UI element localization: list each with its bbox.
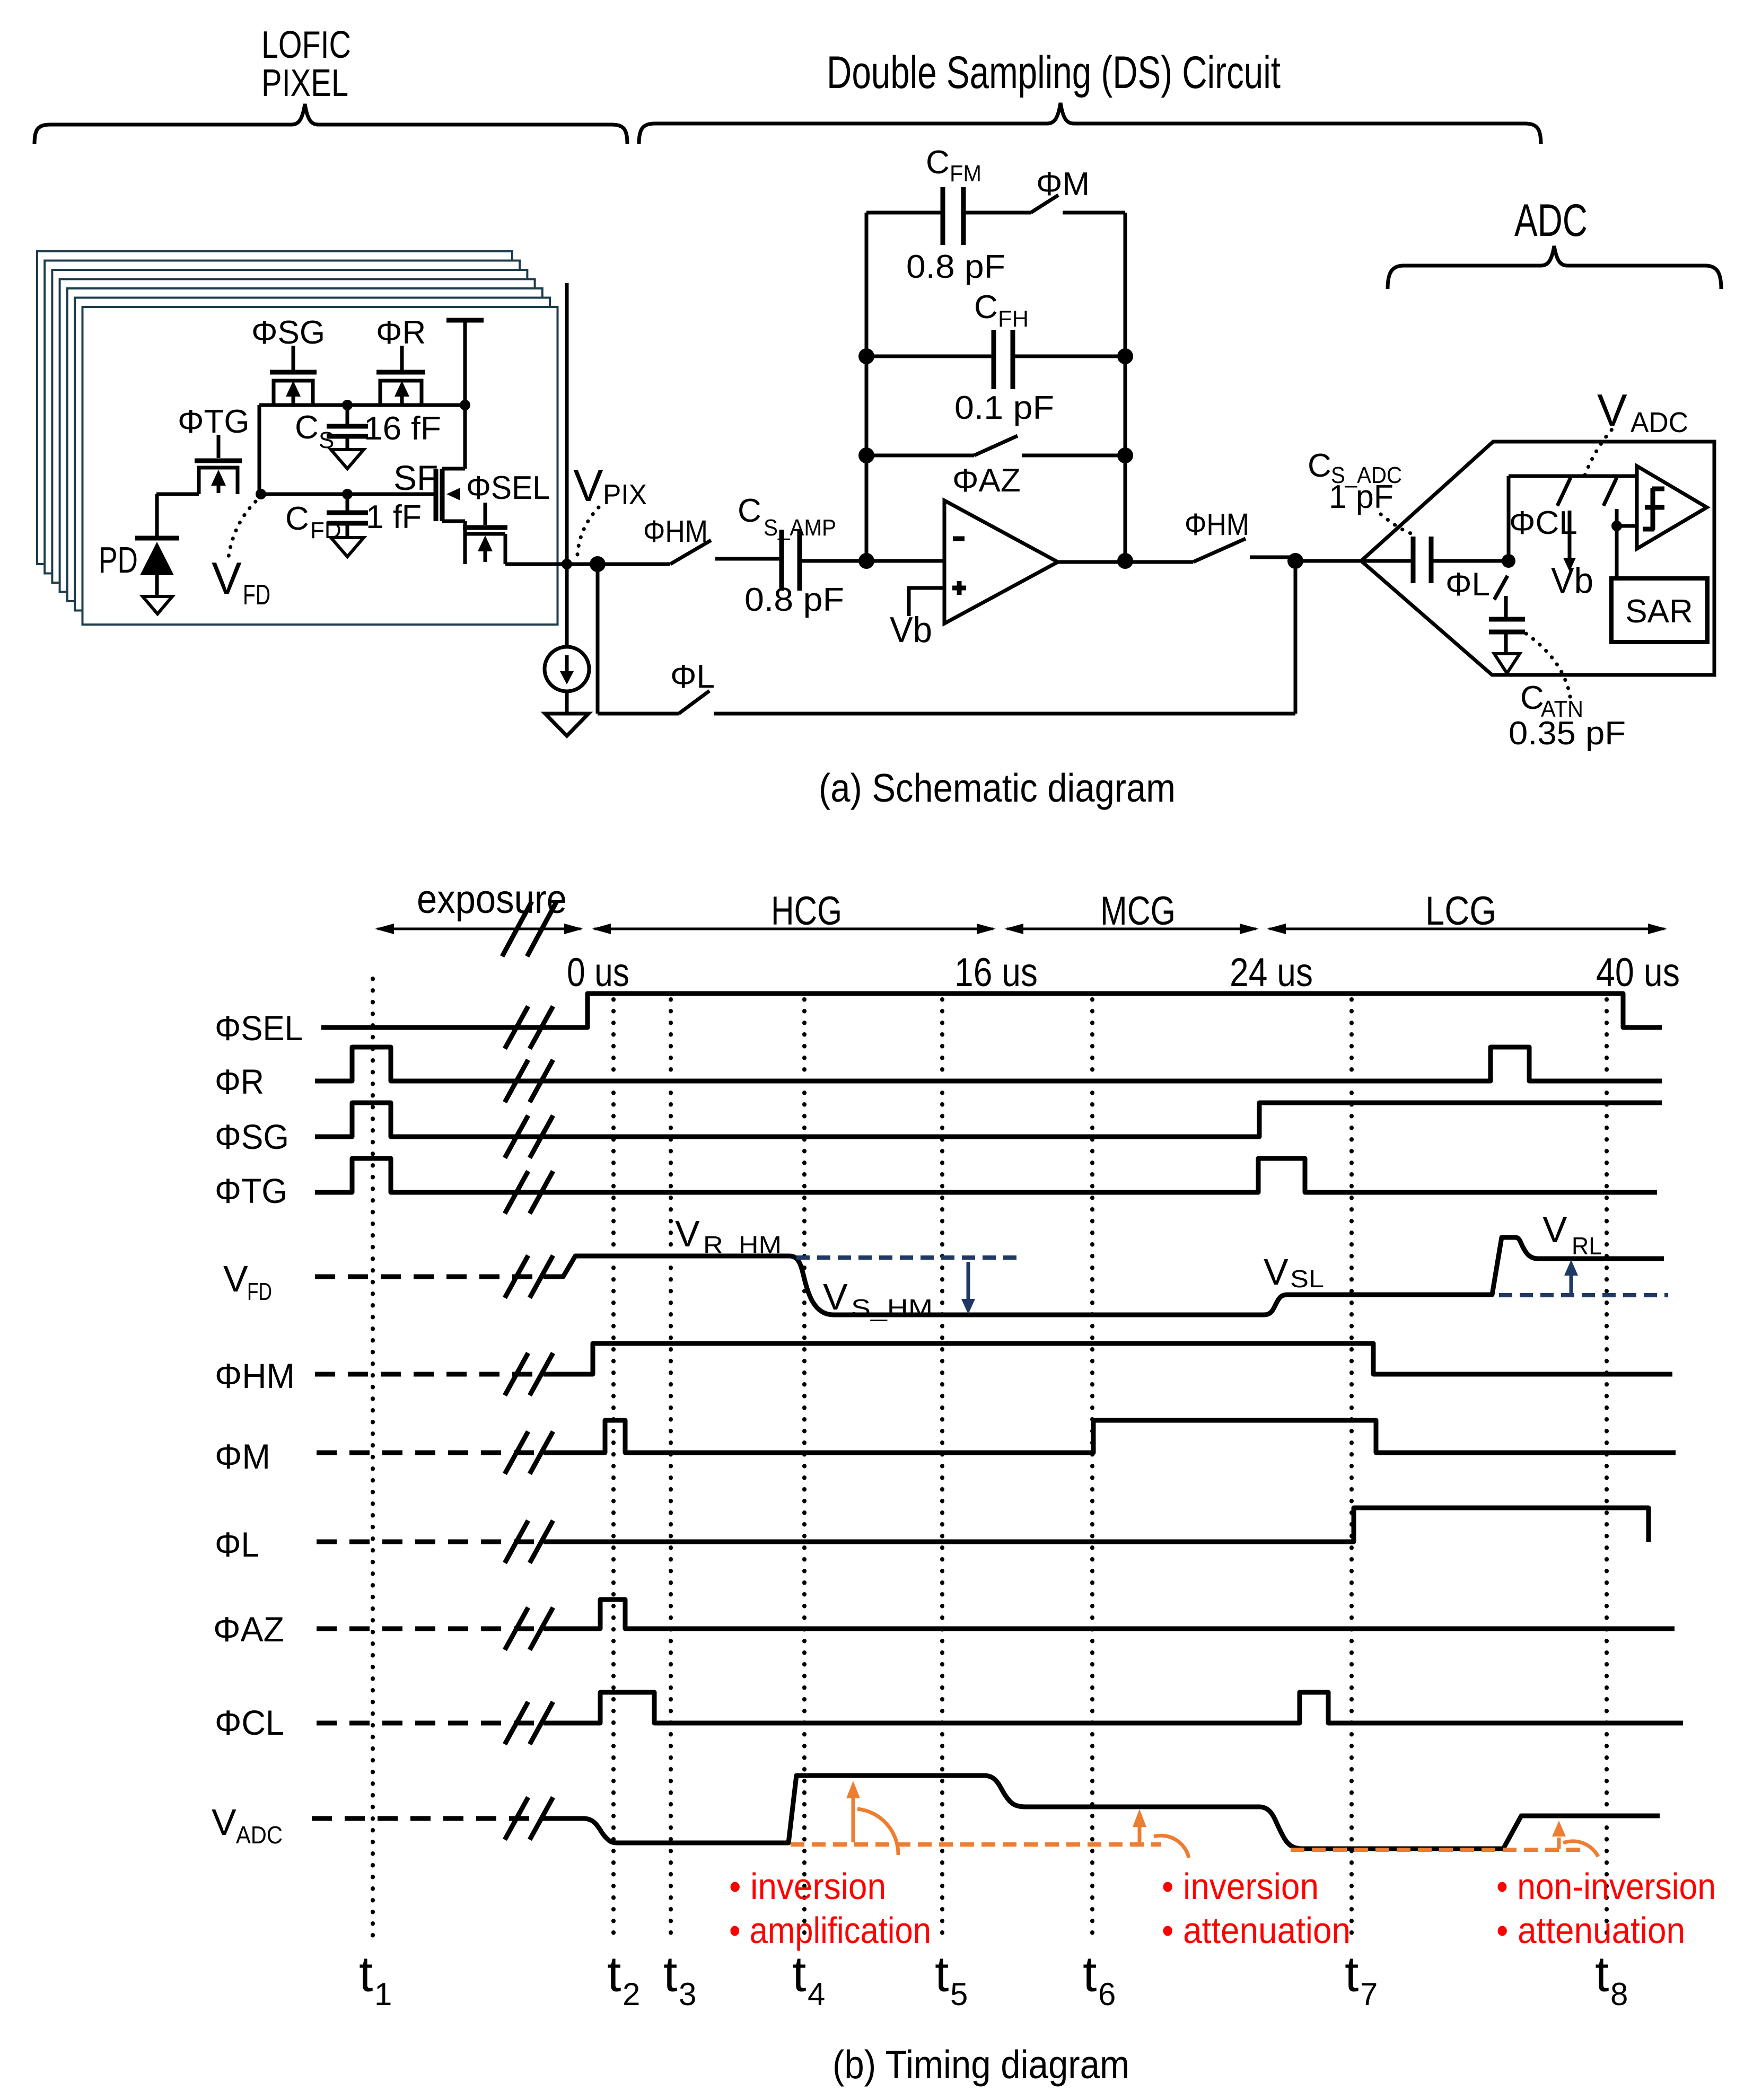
svg-text:SAR: SAR bbox=[1625, 593, 1693, 630]
reference VR_HM dashed blue bbox=[796, 1255, 1019, 1260]
label VFD with pointer bbox=[212, 502, 270, 611]
pixel array stacked box 1 bbox=[37, 251, 512, 564]
brace ADC bbox=[1388, 246, 1721, 289]
ADC attenuator wedge outline bbox=[1361, 442, 1714, 675]
ground current source bbox=[545, 714, 589, 736]
svg-text:ΦL: ΦL bbox=[215, 1525, 259, 1564]
arrow VRL rise blue bbox=[1564, 1260, 1578, 1294]
arc orange rotate HCG bbox=[857, 1809, 898, 1855]
waveform VADC dashed lead bbox=[312, 1816, 551, 1821]
gridline t6 bbox=[1090, 999, 1094, 1938]
label VPIX with pointer bbox=[573, 461, 647, 555]
transistor ΦSG bbox=[251, 314, 325, 405]
wire VPIX column line bbox=[565, 283, 569, 647]
break ΦM bbox=[505, 1431, 553, 1474]
node CFH left bbox=[858, 348, 874, 364]
svg-text:ΦSEL: ΦSEL bbox=[466, 470, 550, 506]
svg-text:16 fF: 16 fF bbox=[364, 410, 441, 447]
pixel array stacked box 5 bbox=[67, 288, 542, 601]
svg-text:t: t bbox=[1595, 1946, 1609, 2002]
svg-text:V: V bbox=[212, 1802, 236, 1843]
node comparator lower input bbox=[1611, 521, 1622, 531]
svg-text:ΦL: ΦL bbox=[670, 658, 715, 695]
gridline t2 bbox=[611, 999, 616, 1938]
label VFD row bbox=[223, 1258, 272, 1305]
svg-text:0 us: 0 us bbox=[567, 950, 629, 995]
break VADC bbox=[505, 1797, 553, 1840]
svg-text:V: V bbox=[573, 461, 603, 511]
wire ΦSG left lead to FD bbox=[258, 405, 261, 494]
label t5 bbox=[935, 1946, 968, 2012]
svg-text:ΦM: ΦM bbox=[1036, 166, 1090, 203]
label t2 bbox=[607, 1946, 640, 2012]
switch ΦL attenuation bbox=[1445, 566, 1507, 603]
svg-text:Vb: Vb bbox=[1551, 560, 1593, 601]
svg-text:LOFIC: LOFIC bbox=[261, 24, 351, 66]
svg-text:• non-inversion: • non-inversion bbox=[1496, 1866, 1716, 1907]
svg-text:1: 1 bbox=[374, 1976, 392, 2012]
waveform ΦCL dashed lead bbox=[317, 1721, 544, 1726]
note inversion attenuation bbox=[1162, 1866, 1351, 1951]
svg-text:3: 3 bbox=[679, 1976, 696, 2012]
switch comparator reset bbox=[1603, 478, 1617, 526]
svg-text:ΦAZ: ΦAZ bbox=[213, 1610, 284, 1649]
break ΦSG bbox=[505, 1115, 553, 1158]
switch ΦAZ bbox=[866, 436, 1125, 499]
arrow LCG span bbox=[1267, 924, 1667, 934]
arrow orange amplification bbox=[846, 1781, 860, 1842]
svg-text:ΦHM: ΦHM bbox=[1185, 507, 1249, 542]
svg-text:• amplification: • amplification bbox=[729, 1910, 931, 1951]
wire amp output bbox=[1058, 560, 1193, 564]
svg-text:4: 4 bbox=[808, 1976, 825, 2012]
label t8 bbox=[1595, 1946, 1628, 2012]
switch ΦHM input bbox=[643, 514, 782, 564]
svg-text:MCG: MCG bbox=[1100, 889, 1176, 934]
label VADC row bbox=[212, 1802, 283, 1849]
svg-text:C: C bbox=[1308, 447, 1331, 484]
svg-text:V: V bbox=[1264, 1251, 1289, 1293]
node CS junction bbox=[342, 400, 353, 410]
arrow exposure span bbox=[375, 901, 583, 956]
wire feedback right rail bbox=[1124, 213, 1127, 561]
svg-text:R_HM: R_HM bbox=[703, 1231, 782, 1259]
svg-text:(a) Schematic diagram: (a) Schematic diagram bbox=[819, 766, 1176, 810]
svg-text:40 us: 40 us bbox=[1596, 950, 1680, 995]
arc orange hook MCG bbox=[1154, 1835, 1189, 1858]
node amp output junction bbox=[1117, 553, 1133, 569]
label VR_HM bbox=[675, 1213, 782, 1259]
waveform ΦAZ dashed lead bbox=[317, 1627, 544, 1631]
svg-text:0.35 pF: 0.35 pF bbox=[1509, 715, 1626, 752]
break ΦHM bbox=[505, 1353, 553, 1395]
wire Vb arrow bbox=[1551, 511, 1593, 601]
switch ΦHM output bbox=[1185, 507, 1295, 562]
waveform ΦL dashed lead bbox=[317, 1540, 544, 1544]
wire Vb bias lead bbox=[890, 588, 944, 650]
svg-text:ΦTG: ΦTG bbox=[215, 1171, 287, 1210]
svg-text:5: 5 bbox=[950, 1976, 968, 2012]
reference orange dashed HCG bbox=[791, 1842, 1161, 1847]
arrow MCG span bbox=[1004, 924, 1259, 934]
gridline t4 bbox=[802, 999, 807, 1938]
svg-text:SL: SL bbox=[1290, 1265, 1324, 1293]
pixel array stacked box 6 bbox=[75, 298, 550, 611]
capacitor CFD bbox=[285, 494, 422, 543]
svg-text:V: V bbox=[223, 1258, 248, 1299]
svg-text:Double Sampling (DS) Circuit: Double Sampling (DS) Circuit bbox=[827, 47, 1281, 98]
svg-text:FD: FD bbox=[247, 1278, 272, 1305]
svg-text:ADC: ADC bbox=[1631, 407, 1688, 438]
svg-text:• attenuation: • attenuation bbox=[1162, 1910, 1351, 1951]
svg-text:ΦSG: ΦSG bbox=[251, 314, 325, 351]
svg-text:PD: PD bbox=[99, 539, 138, 581]
pixel array stacked box 4 bbox=[60, 279, 535, 592]
label t3 bbox=[663, 1946, 696, 2012]
node ΦAZ right bbox=[1117, 447, 1133, 463]
svg-text:C: C bbox=[738, 493, 761, 529]
svg-text:RL: RL bbox=[1572, 1232, 1602, 1260]
ground CFD bbox=[331, 538, 364, 557]
wire node up to comparator input bbox=[1509, 476, 1637, 561]
ground CATN bbox=[1494, 654, 1520, 673]
VDD supply bar bbox=[446, 320, 484, 469]
wire ΦL branch down bbox=[598, 564, 679, 714]
SAR logic block bbox=[1611, 578, 1707, 642]
waveform ΦCL bbox=[544, 1692, 1683, 1723]
label t6 bbox=[1083, 1946, 1116, 2012]
svg-text:V: V bbox=[1542, 1209, 1567, 1250]
svg-text:t: t bbox=[607, 1946, 621, 2002]
svg-text:ΦM: ΦM bbox=[215, 1437, 270, 1476]
arrow VS_HM drop blue bbox=[961, 1262, 975, 1314]
switch ΦL bbox=[670, 658, 715, 714]
brace DS circuit bbox=[639, 103, 1541, 144]
node ΦL branch junction bbox=[590, 556, 606, 572]
svg-text:0.8 pF: 0.8 pF bbox=[744, 582, 844, 618]
waveform ΦSG bbox=[315, 1103, 1662, 1137]
svg-text:ADC: ADC bbox=[1514, 195, 1588, 246]
pixel array stacked box 3 bbox=[52, 270, 527, 583]
svg-text:ΦCL: ΦCL bbox=[215, 1703, 284, 1742]
svg-text:C: C bbox=[295, 409, 319, 446]
switch ΦM bbox=[1031, 166, 1125, 213]
svg-text:C: C bbox=[285, 500, 309, 537]
node CS_ADC output bbox=[1502, 554, 1515, 568]
svg-text:0.8 pF: 0.8 pF bbox=[906, 249, 1005, 285]
svg-text:ΦSEL: ΦSEL bbox=[215, 1008, 303, 1048]
svg-text:exposure: exposure bbox=[417, 877, 567, 922]
wire ΦSEL source to column bbox=[505, 563, 670, 566]
node CFH right bbox=[1117, 348, 1133, 364]
svg-text:ΦR: ΦR bbox=[215, 1062, 264, 1101]
svg-text:SF: SF bbox=[393, 458, 438, 497]
waveform ΦAZ bbox=[544, 1600, 1675, 1629]
waveform ΦSEL bbox=[321, 994, 1662, 1027]
svg-text:ΦTG: ΦTG bbox=[178, 403, 250, 440]
transistor ΦTG bbox=[156, 403, 250, 494]
pixel array stacked box 2 bbox=[45, 261, 520, 574]
label VRL bbox=[1542, 1209, 1602, 1260]
waveform VFD bbox=[544, 1237, 1664, 1315]
svg-text:S_HM: S_HM bbox=[851, 1294, 933, 1322]
gridline t1 bbox=[371, 979, 375, 1938]
node FD dot bbox=[256, 489, 266, 499]
svg-text:ΦSG: ΦSG bbox=[215, 1117, 289, 1156]
waveform ΦHM bbox=[544, 1343, 1672, 1374]
wire to SAR bbox=[1615, 526, 1619, 578]
svg-text:t: t bbox=[935, 1946, 949, 2002]
wire ΦL bottom rail bbox=[714, 563, 1295, 714]
svg-text:0.1 pF: 0.1 pF bbox=[954, 390, 1054, 426]
waveform ΦR bbox=[315, 1047, 1662, 1081]
label VADC with pointer bbox=[1585, 385, 1688, 475]
wire CS top rail bbox=[259, 403, 465, 407]
capacitor CFM bbox=[866, 144, 1031, 285]
node column junction bbox=[562, 559, 572, 569]
arc orange hook LCG bbox=[1563, 1841, 1598, 1857]
svg-text:• attenuation: • attenuation bbox=[1496, 1910, 1685, 1951]
svg-text:(b) Timing diagram: (b) Timing diagram bbox=[832, 2042, 1129, 2087]
arrow HCG span bbox=[592, 924, 996, 934]
ground PD bbox=[143, 596, 172, 614]
svg-text:ΦR: ΦR bbox=[376, 314, 426, 351]
svg-text:ΦCL: ΦCL bbox=[1509, 505, 1577, 541]
note non-inversion attenuation bbox=[1496, 1866, 1716, 1951]
wire to comparator minus input bbox=[1617, 524, 1637, 528]
svg-text:ΦHM: ΦHM bbox=[643, 514, 708, 549]
switch ΦCL bbox=[1509, 478, 1577, 541]
svg-text:16 us: 16 us bbox=[954, 950, 1038, 995]
svg-text:S_AMP: S_AMP bbox=[764, 515, 836, 541]
capacitor CATN bbox=[1489, 596, 1626, 752]
waveform VFD dashed lead bbox=[315, 1275, 544, 1279]
wire feedback left rail bbox=[865, 213, 869, 561]
svg-text:• inversion: • inversion bbox=[729, 1866, 886, 1907]
svg-text:HCG: HCG bbox=[771, 889, 842, 934]
node ADC input junction bbox=[1287, 553, 1303, 569]
break ΦL bbox=[505, 1521, 553, 1563]
op-amp DS amplifier bbox=[944, 500, 1058, 623]
svg-text:2: 2 bbox=[623, 1976, 640, 2012]
waveform VADC bbox=[551, 1776, 1660, 1849]
svg-text:V: V bbox=[1597, 385, 1627, 436]
wire FD node bbox=[261, 493, 434, 496]
gridline t5 bbox=[940, 999, 944, 1938]
reference VSL dashed blue right bbox=[1499, 1293, 1668, 1297]
svg-text:ΦAZ: ΦAZ bbox=[952, 462, 1021, 499]
break ΦSEL bbox=[505, 1006, 553, 1049]
break ΦCL bbox=[505, 1702, 553, 1744]
pixel front box bbox=[83, 307, 558, 625]
svg-text:1 fF: 1 fF bbox=[366, 499, 422, 535]
svg-text:V: V bbox=[675, 1213, 700, 1254]
svg-text:C: C bbox=[926, 144, 950, 181]
svg-text:V: V bbox=[212, 553, 242, 604]
svg-text:FH: FH bbox=[998, 306, 1029, 332]
waveform ΦL bbox=[544, 1508, 1649, 1542]
current source column bias bbox=[545, 647, 589, 714]
svg-text:V: V bbox=[823, 1276, 848, 1317]
svg-text:C: C bbox=[974, 289, 998, 326]
svg-text:6: 6 bbox=[1098, 1976, 1116, 2012]
capacitor CFH bbox=[866, 289, 1125, 426]
capacitor CS_AMP bbox=[738, 493, 844, 618]
node VDD rail junction bbox=[460, 400, 470, 410]
svg-text:LCG: LCG bbox=[1425, 889, 1496, 934]
svg-text:ADC: ADC bbox=[236, 1821, 283, 1849]
svg-text:PIXEL: PIXEL bbox=[261, 62, 348, 104]
svg-text:ΦL: ΦL bbox=[1445, 566, 1490, 603]
ground CS bbox=[331, 450, 364, 469]
wire node to wedge apex bbox=[1295, 559, 1361, 563]
break VFD bbox=[505, 1255, 553, 1298]
svg-text:PIX: PIX bbox=[603, 479, 647, 511]
capacitor CS bbox=[295, 405, 441, 453]
break ΦTG bbox=[505, 1171, 553, 1214]
label t1 bbox=[359, 1946, 392, 2012]
svg-text:t: t bbox=[663, 1946, 677, 2002]
svg-text:FM: FM bbox=[950, 161, 981, 187]
gridline t8 bbox=[1605, 999, 1609, 1938]
svg-text:t: t bbox=[1345, 1946, 1358, 2002]
waveform ΦM bbox=[544, 1420, 1676, 1453]
svg-text:FD: FD bbox=[243, 579, 270, 611]
note inversion amplification bbox=[729, 1866, 931, 1951]
break ΦR bbox=[505, 1060, 553, 1102]
gridline t3 bbox=[669, 999, 673, 1938]
brace LOFIC PIXEL bbox=[34, 104, 627, 144]
break ΦAZ bbox=[505, 1607, 553, 1650]
svg-text:• inversion: • inversion bbox=[1162, 1866, 1319, 1907]
svg-text:FD: FD bbox=[310, 517, 341, 543]
arrow orange LCG bbox=[1552, 1821, 1566, 1849]
reference orange dashed LCG bbox=[1291, 1848, 1580, 1852]
svg-text:t: t bbox=[1083, 1946, 1097, 2002]
label VS_HM bbox=[823, 1276, 933, 1322]
svg-text:1 pF: 1 pF bbox=[1329, 479, 1393, 515]
svg-text:7: 7 bbox=[1360, 1976, 1378, 2012]
photodiode PD bbox=[99, 494, 179, 596]
transistor ΦSEL bbox=[463, 470, 550, 564]
node ΦAZ left bbox=[858, 447, 874, 463]
waveform ΦHM dashed lead bbox=[315, 1372, 544, 1377]
label t7 bbox=[1345, 1946, 1378, 2012]
comparator U2 bbox=[1637, 466, 1707, 549]
waveform ΦTG bbox=[315, 1158, 1657, 1192]
label VSL bbox=[1264, 1251, 1324, 1293]
svg-text:Vb: Vb bbox=[890, 610, 932, 650]
node CFD dot bbox=[342, 489, 353, 499]
capacitor CS_ADC bbox=[1308, 447, 1509, 583]
waveform ΦM dashed lead bbox=[317, 1451, 544, 1455]
svg-text:t: t bbox=[792, 1946, 806, 2002]
arrow orange MCG bbox=[1133, 1809, 1146, 1844]
label t4 bbox=[792, 1946, 825, 2012]
svg-text:ΦHM: ΦHM bbox=[215, 1356, 295, 1395]
node summing junction bbox=[858, 553, 874, 569]
transistor SF bbox=[393, 458, 465, 521]
gridline t7 bbox=[1349, 999, 1354, 1938]
svg-text:8: 8 bbox=[1610, 1976, 1628, 2012]
wire summing node bbox=[800, 559, 944, 563]
svg-text:24 us: 24 us bbox=[1230, 950, 1313, 995]
svg-text:t: t bbox=[359, 1946, 373, 2002]
transistor ΦR bbox=[376, 314, 426, 405]
